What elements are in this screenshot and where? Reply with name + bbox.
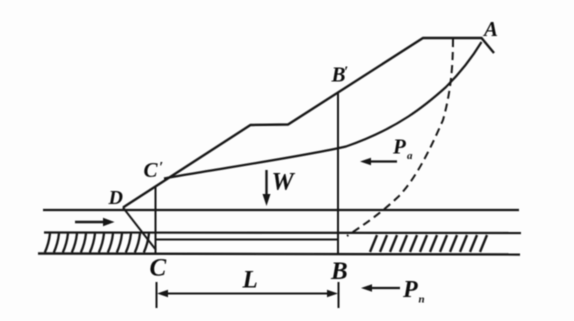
dimension L between C and B (157, 282, 339, 308)
svg-text:a: a (407, 150, 413, 162)
bottom bedrock line (38, 254, 520, 255)
svg-text:A: A (482, 17, 498, 41)
vertical line B' to B (337, 93, 339, 255)
flow arrow near D (75, 218, 115, 226)
svg-text:C: C (144, 158, 159, 182)
dashed crack curve from plateau to B (347, 39, 453, 236)
slip surface curve C' to A (164, 42, 482, 179)
svg-text:C: C (150, 255, 167, 282)
svg-text:′: ′ (159, 160, 163, 176)
svg-text:P: P (392, 135, 406, 159)
weight arrow W (263, 170, 271, 206)
svg-text:B: B (330, 258, 348, 285)
toe diagonal from D (123, 208, 156, 251)
svg-text:n: n (419, 294, 425, 306)
force arrow Pa (360, 158, 397, 166)
svg-text:W: W (272, 169, 296, 196)
horizontal layer top line (44, 231, 521, 234)
left hatch (45, 234, 149, 253)
svg-text:D: D (108, 187, 123, 209)
svg-text:L: L (242, 267, 258, 294)
ground surface polyline D to A (123, 38, 494, 208)
svg-text:P: P (402, 277, 418, 303)
svg-text:′: ′ (344, 64, 348, 80)
vertical line C' to C (155, 187, 157, 255)
horizontal ground line (43, 209, 519, 211)
force arrow Pn (361, 284, 400, 292)
right hatch (370, 235, 487, 252)
slip base line C to B (156, 239, 339, 241)
